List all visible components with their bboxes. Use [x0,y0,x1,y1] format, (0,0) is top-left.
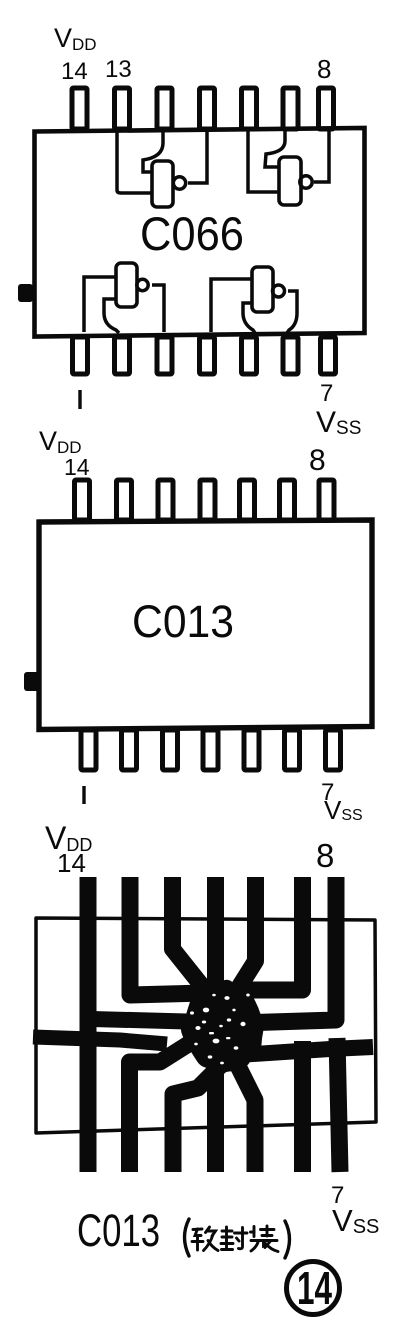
svg-text:14: 14 [297,1262,332,1314]
svg-text:C013: C013 [132,596,234,647]
svg-text:14: 14 [61,58,88,85]
svg-text:C013: C013 [77,1205,160,1256]
svg-text:14: 14 [64,454,90,480]
svg-text:8: 8 [317,54,331,84]
svg-text:8: 8 [316,837,334,874]
svg-text:C066: C066 [140,207,244,260]
svg-text:8: 8 [309,444,326,477]
svg-text:13: 13 [105,56,132,83]
svg-text:7: 7 [320,380,333,407]
svg-text:14: 14 [57,848,86,878]
